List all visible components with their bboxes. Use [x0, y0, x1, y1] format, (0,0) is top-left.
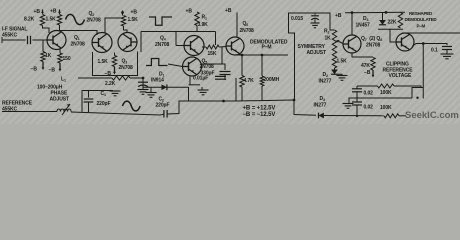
wire Q2 collector to +B node	[105, 18, 123, 33]
capacitor + ground mid	[142, 78, 144, 81]
potentiometer R2 1K symmetry	[332, 30, 336, 56]
wire 2.2K line	[78, 77, 112, 79]
grain overlay	[0, 0, 460, 124]
diode D3 IN277	[319, 113, 324, 119]
resistor 1.5K collector Q3	[121, 16, 125, 27]
resistor 1.5K below pot	[332, 56, 336, 68]
transistor Q3 2N708	[118, 33, 137, 52]
wire diode line	[142, 78, 144, 87]
resistor R1 3.9K	[195, 12, 199, 26]
wire 8.2K to Q1 collector	[43, 26, 50, 34]
ground left of caps	[349, 98, 357, 103]
transistor Q7 2N708	[343, 35, 361, 53]
resistor 8.2K	[40, 15, 44, 26]
power -B below 1K	[42, 62, 44, 69]
inductor L1 phase adjust	[57, 109, 71, 111]
diode D1 IN914	[162, 84, 167, 90]
wire box bottom to D3 line	[236, 100, 294, 101]
wire long vertical divider	[289, 27, 295, 100]
resistor 100K upper	[357, 85, 378, 87]
capacitor 0.01 above box	[215, 75, 226, 77]
wire 1.5K to coupling line	[60, 25, 98, 35]
diode D4 1N457	[382, 13, 384, 21]
wire demodulated line	[239, 53, 241, 55]
transistor Q8 2N708	[396, 33, 414, 51]
wire reference line	[2, 111, 57, 113]
power -B below 47K	[372, 70, 374, 76]
resistor 22K	[398, 12, 402, 28]
wire to Q5 base	[168, 64, 183, 67]
multivibrator box wiring	[93, 52, 138, 76]
wiper arrow R2	[339, 42, 343, 44]
capacitor 0.015 w/ ground	[314, 13, 316, 15]
wire Q5 emitter to box	[189, 76, 191, 85]
resistor 1.5K collector Q1	[57, 15, 61, 26]
wire Q8 emitter line	[412, 44, 445, 47]
sine waveform symbol at Q2	[66, 14, 85, 24]
waveform square wave 1	[149, 17, 172, 25]
resistor 1K base bias	[42, 40, 44, 52]
wire box around ground	[188, 87, 190, 101]
paper background	[0, 0, 460, 124]
capacitor 330pF	[202, 64, 226, 70]
wire Q7 collector	[351, 13, 353, 35]
wire input line	[1, 37, 3, 43]
capacitor C2 220pF	[163, 110, 165, 118]
waveform square wave 2	[146, 59, 167, 66]
ground near C1	[82, 90, 113, 92]
wire cap to Q1 base	[33, 39, 48, 41]
wire D4/22K bottom	[378, 28, 403, 30]
resistor 15K	[202, 46, 206, 48]
resistor 150 emitter Q1	[59, 49, 61, 53]
wire RC string vertical	[356, 86, 358, 89]
wire coupling line to Q4	[141, 31, 216, 33]
power -B tail	[114, 67, 116, 74]
resistor 2.2K	[112, 76, 130, 80]
resistor 47K emitter Q7	[352, 53, 373, 57]
capacitor C1 220pF	[81, 91, 83, 112]
big sine symbol	[123, 101, 141, 111]
wire output line	[405, 32, 408, 34]
resistor 100K lower on rail	[384, 114, 399, 118]
inductor 200MH	[261, 55, 263, 76]
transistor Q6 2N708	[226, 37, 244, 55]
capacitor 0.02 lower	[352, 101, 362, 103]
transistor Q2 2N708	[92, 33, 112, 53]
resistor 1.5K emitter tail	[114, 53, 116, 56]
transistor Q4 2N708	[184, 36, 204, 56]
wire +B node	[122, 11, 124, 16]
power +B for Q6	[236, 13, 238, 38]
wire bottom rail right	[324, 115, 384, 117]
ground under diode line	[150, 87, 152, 92]
box 0.015 cap	[289, 13, 335, 30]
capacitor 0.02 upper	[352, 88, 362, 90]
capacitor input coupling	[27, 36, 29, 44]
transistor Q5 2N708	[183, 57, 202, 76]
transistor Q1 2N708	[47, 31, 66, 50]
ground inside box	[201, 87, 203, 90]
wire Q4 base	[176, 45, 184, 47]
wire junction down from 15K	[221, 47, 223, 64]
wire feedback vertical	[422, 44, 424, 88]
resistor 4.7K	[241, 55, 243, 76]
power -B below 150	[59, 63, 61, 70]
diode D2 IN277 to ground	[334, 68, 336, 70]
capacitor 0.1 w/ ground	[445, 44, 448, 46]
wire reference line cont	[71, 112, 160, 115]
